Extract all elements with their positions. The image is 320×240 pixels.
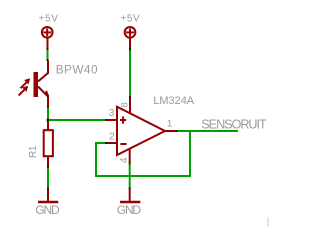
emitter lead (38, 87, 48, 108)
emitter arrow head (43, 90, 49, 96)
svg-text:+5V: +5V (39, 14, 59, 25)
junction pixel pin4->net (129, 163, 131, 165)
node junction dot (47, 119, 50, 122)
svg-text:GND: GND (35, 203, 60, 217)
light arrow 2 (19, 89, 25, 95)
wire: left +5V to collector (green net) (47, 50, 49, 59)
svg-text:LM324A: LM324A (153, 95, 194, 107)
body (44, 130, 53, 156)
svg-text:SENSORUIT: SENSORUIT (201, 118, 267, 132)
top pin (47, 121, 49, 130)
wire: feedback rise to pin2 (green) (95, 143, 97, 177)
svg-text:R1: R1 (28, 145, 39, 158)
plus marker (120, 119, 126, 121)
minus marker (120, 143, 126, 145)
base bar (34, 72, 39, 97)
collector lead (38, 61, 48, 82)
junction pixel (47, 48, 49, 50)
wire: center +5V stem (red pin) (129, 39, 131, 50)
junction pixel (129, 96, 131, 98)
junction pixel net->pin2 (105, 142, 107, 144)
svg-text:4: 4 (119, 157, 130, 163)
wire: feedback drop from output (green) (189, 131, 191, 177)
wire: output net SENSORUIT (green) (178, 130, 239, 132)
border artifact bottom-right (267, 218, 269, 228)
svg-text:2: 2 (109, 132, 115, 143)
pin 4 lead (129, 149, 131, 164)
wire: resistor to GND (green) (47, 168, 49, 188)
pin 8 lead (129, 98, 131, 114)
junction pixel (129, 188, 131, 190)
pin 2 lead (107, 142, 117, 144)
svg-text:GND: GND (117, 203, 142, 217)
junction pixel pin1->net (176, 130, 178, 132)
pin 3 lead (107, 119, 117, 121)
phototransistor Q BPW40 (19, 61, 50, 108)
triangle body (117, 107, 165, 155)
bottom pin (47, 157, 49, 167)
supply symbol +5V (center) (125, 27, 136, 38)
junction pixel net->pin3 (105, 119, 107, 121)
svg-text:BPW40: BPW40 (56, 62, 98, 76)
wire: pin4 to GND (green) (129, 164, 131, 188)
wire: center +5V to op-amp pin 8 (green net) (129, 50, 131, 97)
wire: feedback into pin2 (green) (95, 142, 106, 144)
wire: left +5V stem (red pin) (47, 39, 49, 50)
svg-text:1: 1 (167, 119, 172, 130)
light arrow 1 (21, 82, 27, 88)
svg-text:3: 3 (109, 108, 115, 119)
ground GND (center) (120, 190, 140, 203)
supply symbol +5V (left) (42, 27, 53, 38)
wire: emitter down to node (green) (47, 108, 49, 120)
svg-text:8: 8 (120, 102, 130, 107)
junction pixel (47, 167, 49, 169)
output pin 1 lead (165, 130, 177, 132)
junction pixel (129, 48, 131, 50)
junction pixel emitter->net (47, 107, 49, 109)
op-amp U1 LM324A (107, 98, 177, 164)
junction pixel (47, 188, 49, 190)
ground GND (left) (38, 190, 58, 203)
wire: node to op-amp pin3 (green) (48, 119, 106, 121)
wire: feedback bottom run (green) (95, 175, 191, 177)
resistor R1 (44, 121, 53, 167)
junction pixel (47, 59, 49, 61)
svg-text:+5V: +5V (120, 14, 140, 25)
